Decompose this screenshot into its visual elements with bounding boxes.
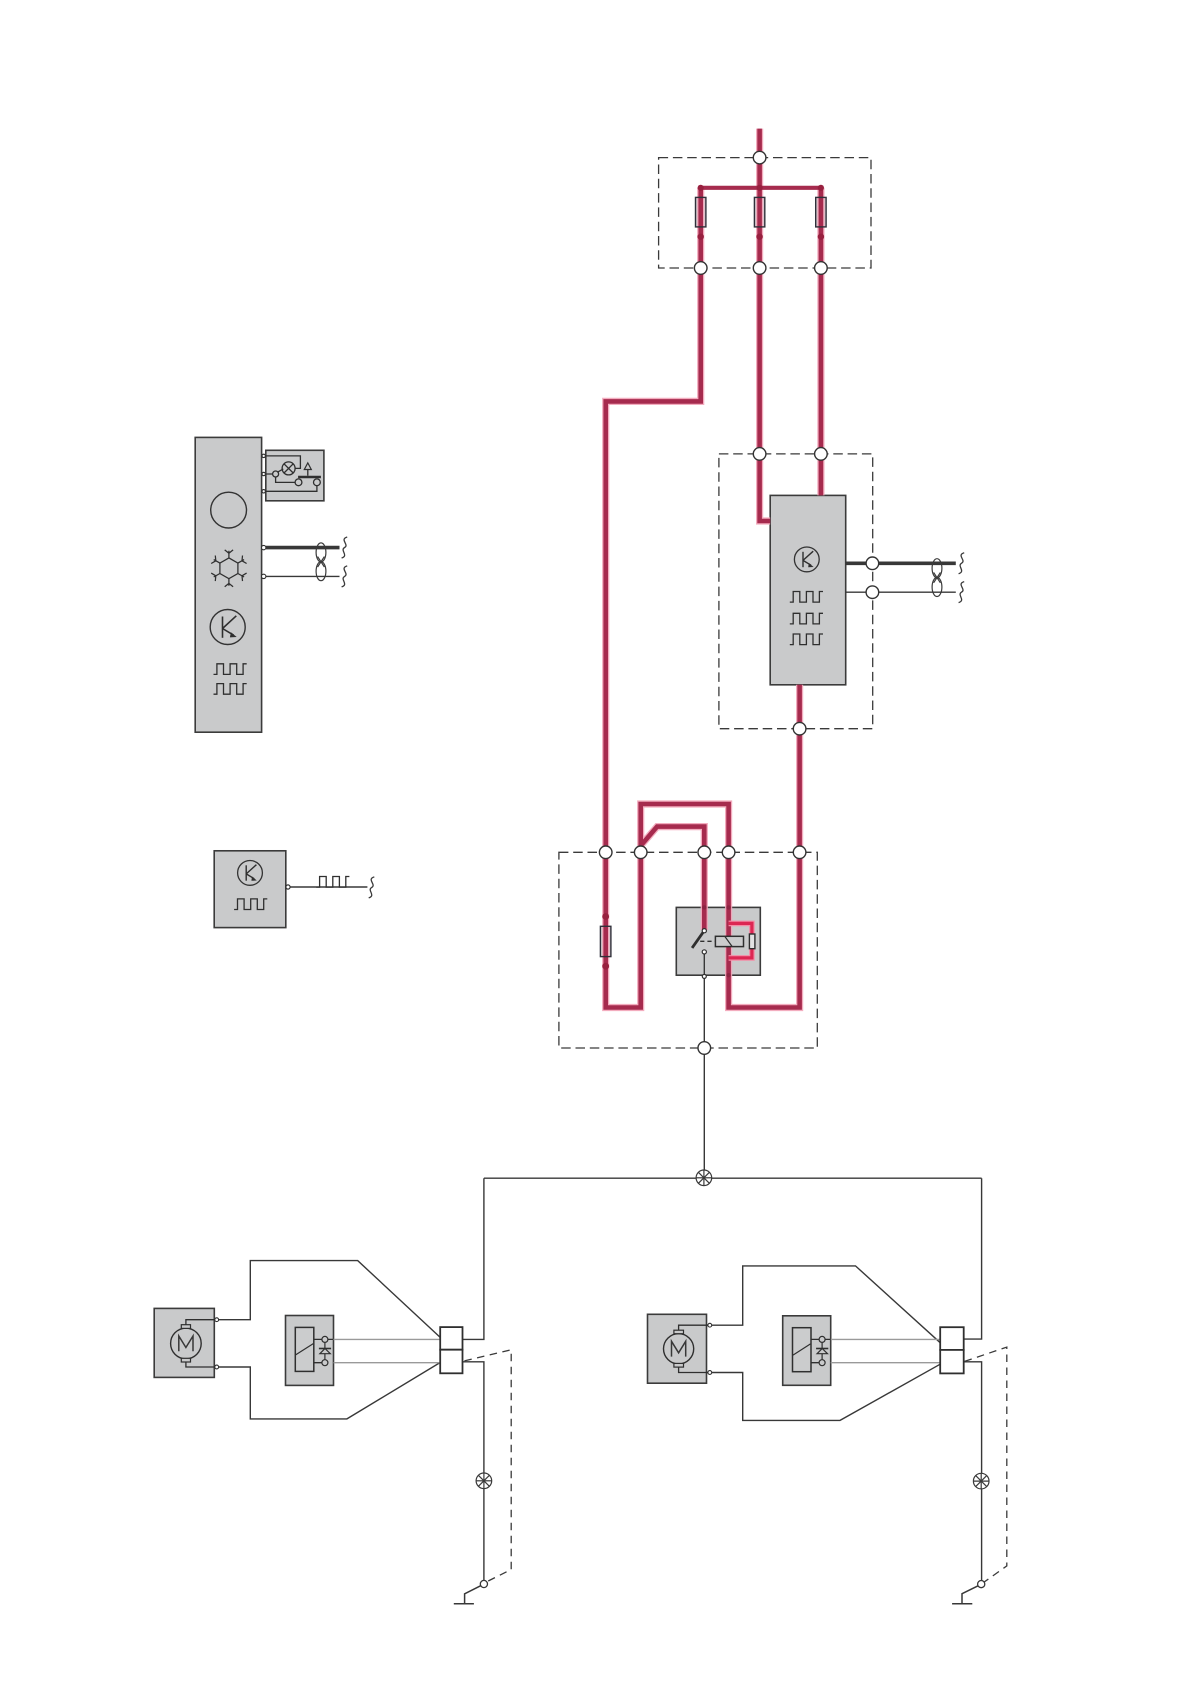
fuse F3 — [816, 197, 826, 227]
relay coil shunt loop (bright red) — [729, 923, 752, 958]
U3 square wave inside — [234, 899, 267, 910]
S1 buzzer triangle — [304, 463, 311, 470]
fuse F1 body — [696, 197, 706, 227]
S1 node wiring — [266, 469, 317, 491]
relay switch pivot pin — [702, 929, 706, 933]
junction dot: bus centre — [757, 185, 763, 191]
connector pin: fuse box out 1 — [694, 262, 707, 275]
resistor R3 (coil shunt) — [749, 934, 755, 949]
U3 break mark — [369, 877, 375, 898]
wire: motor M1 minus loop — [216, 1363, 440, 1419]
pin nub: relay terminal 728 bottom — [726, 973, 730, 977]
connector pin: relay box 3 — [698, 846, 711, 859]
connector pin: U2 thick out — [866, 557, 879, 570]
wire: battery feed to fuse box — [760, 129, 771, 521]
U1 square wave 1 — [214, 664, 247, 675]
wire: ground distribution bus — [484, 1177, 982, 1179]
U3 output pin — [286, 885, 290, 889]
wire: R1 links to connector (pale) — [334, 1339, 441, 1362]
U1 twisted pair symbol — [316, 543, 326, 581]
wire: motor M2 minus loop — [709, 1364, 940, 1420]
connector pin: U2 in A — [753, 448, 766, 461]
U2 break mark top — [959, 553, 965, 574]
S1 pin bottom — [262, 490, 265, 493]
wire: fuse 1 run - relay fuse - coil loop - to U2 — [606, 188, 800, 1008]
junction dot: below fuse 3 — [818, 234, 824, 240]
ground terminal circle right — [978, 1581, 985, 1588]
U1 output pin thin — [262, 574, 266, 578]
U1 transistor symbol — [210, 610, 245, 645]
S1 switch contact left — [295, 479, 302, 486]
U2 break mark bottom — [959, 582, 965, 603]
fuse F2 body — [754, 197, 764, 227]
wire: right connector to ground point — [964, 1362, 982, 1584]
splice: left ground lead — [476, 1473, 492, 1489]
fuse F1 — [696, 197, 706, 227]
motor M2 symbol — [664, 1323, 712, 1374]
fuse F3 body — [816, 197, 826, 227]
U2 square wave 1 — [790, 592, 823, 603]
U2 twisted pair symbol — [932, 559, 942, 597]
U1 output pin thick — [262, 545, 266, 549]
resistor pack R1 internals — [295, 1327, 333, 1371]
U2 square wave 2 — [790, 613, 823, 624]
resistor pack R1 box — [286, 1316, 334, 1386]
U1 snowflake symbol — [211, 550, 246, 587]
wire: R2 links to connector (pale) — [831, 1339, 941, 1362]
fuse F4 (in relay box) — [600, 926, 611, 956]
sensor module U3 (standalone K box) — [214, 851, 286, 928]
splice: right ground lead — [973, 1473, 989, 1489]
relay actuation link (dashed) — [700, 940, 715, 942]
connector pin: U2 thin out — [866, 586, 879, 599]
junction dot: relay fuse bottom — [602, 963, 609, 970]
connector pin: relay box 2 — [634, 846, 647, 859]
S1 switch contact right — [314, 479, 321, 486]
connector pin: fuse box out 3 — [815, 262, 828, 275]
control module boundary (dashed) — [719, 454, 873, 729]
junction dot: relay fuse top — [602, 913, 609, 920]
relay box boundary (dashed) — [559, 852, 817, 1048]
connector pin: U2 in B — [815, 448, 828, 461]
ground lead left (dashed wire) — [464, 1350, 511, 1582]
ground symbol left — [454, 1586, 481, 1604]
U1 gauge circle symbol — [211, 492, 247, 528]
control module U2 (right) — [770, 495, 846, 684]
connector block C2 (right, two cavities) — [940, 1327, 964, 1373]
U3 transistor symbol — [238, 861, 263, 886]
S1 junction node — [273, 471, 279, 477]
motor M1 symbol — [171, 1318, 219, 1369]
resistor pack R2 box — [783, 1316, 831, 1386]
connector pin: U2 bottom out — [793, 722, 806, 735]
resistor pack R2 internals — [793, 1328, 831, 1372]
S1 pin mid — [262, 472, 265, 475]
relay switch fixed contact pin — [702, 950, 706, 954]
junction dot: below fuse 1 — [698, 234, 704, 240]
control unit U1 (left tall module) — [195, 437, 261, 732]
wire: relay switch feed branch — [641, 827, 705, 930]
fuse F2 — [754, 197, 764, 227]
wire halo: right feed — [817, 188, 824, 496]
pin nub: relay terminal 728 top — [726, 905, 730, 909]
wire: fuse 3 to U2 top — [819, 188, 824, 496]
S1 indicator lamp — [282, 462, 295, 475]
wire: motor M1 plus loop — [216, 1261, 440, 1338]
U1 square wave 2 — [214, 684, 247, 695]
wire: U2 thin output — [846, 591, 956, 593]
wire: left connector to ground point — [463, 1362, 484, 1584]
wire: fuse bus bar — [701, 186, 821, 190]
pin nub: relay terminal 704 top — [702, 905, 706, 909]
wire: left connector to ground bus — [463, 1178, 484, 1339]
relay K1 body — [676, 907, 760, 975]
U1 break mark top — [342, 537, 348, 558]
relay coil K1 — [715, 936, 743, 946]
connector pin: relay box 5 — [793, 846, 806, 859]
connector block C1 (left, two cavities) — [440, 1327, 462, 1373]
fuse box boundary (dashed) — [659, 158, 871, 268]
connector pin: relay box ground out — [698, 1042, 711, 1055]
ground symbol right — [952, 1586, 978, 1604]
splice: ground bus junction — [696, 1170, 712, 1186]
junction dot: bus right — [818, 185, 824, 191]
relay case pin 704 bottom — [702, 974, 706, 978]
S1 switch bar — [298, 476, 321, 479]
connector pin: relay box 1 — [599, 846, 612, 859]
U2 square wave 3 — [790, 634, 823, 645]
wire: right connector to ground bus — [964, 1178, 982, 1339]
wire halo: relay switch feed branch — [641, 827, 705, 930]
wire halo: main supply run — [606, 188, 800, 1008]
connector pin: fuse box out 2 — [753, 262, 766, 275]
switch pack S1 (attached box) — [266, 450, 324, 501]
connector pin: fuse box feed — [753, 151, 766, 164]
wire: relay switch output to ground splice — [703, 954, 705, 1178]
junction dot: bus left — [698, 185, 704, 191]
junction dot: below fuse 2 — [756, 234, 762, 240]
wire: U3 output — [290, 886, 367, 888]
S1 pin top — [262, 454, 265, 457]
wire: U1 thin output — [266, 575, 340, 577]
U3 signal wave on wire — [316, 877, 349, 888]
fan motor M2 box — [648, 1314, 707, 1383]
wire: U1 thick output — [266, 546, 340, 550]
S1 switch stem — [307, 470, 309, 476]
connector pin: relay box 4 — [722, 846, 735, 859]
relay switch arm — [692, 932, 703, 948]
wire: U2 thick output — [846, 561, 956, 565]
fuse F4 body — [600, 926, 611, 956]
ground terminal circle left — [480, 1580, 487, 1587]
wire halo: centre feed — [760, 129, 771, 521]
wire: motor M2 plus loop — [709, 1266, 940, 1343]
S1 lamp feed wire — [266, 456, 301, 469]
U1 break mark bottom — [342, 566, 348, 587]
U2 transistor symbol — [794, 547, 819, 572]
ground lead right (dashed wire) — [965, 1347, 1007, 1582]
fan motor M1 box — [154, 1308, 214, 1377]
